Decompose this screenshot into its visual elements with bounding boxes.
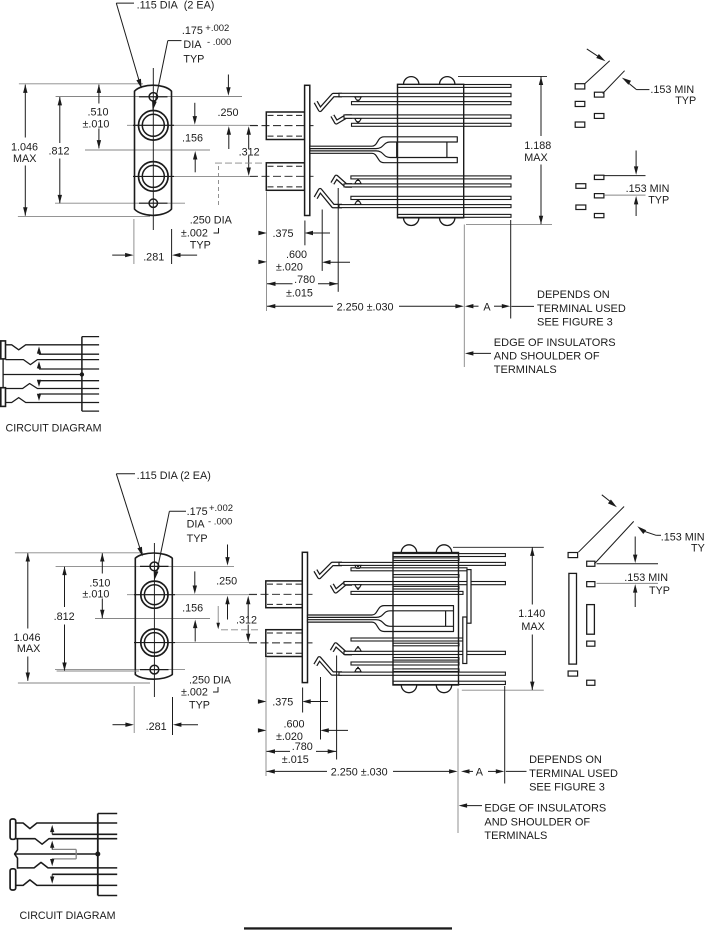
wire row3b (top CD) — [39, 380, 99, 382]
contact strip A (top fig) — [398, 85, 512, 88]
extension line insulator edge (top fig) — [463, 225, 465, 368]
dimension .156 (bottom fig) — [194, 571, 196, 587]
contact strip C (top fig) — [352, 102, 512, 105]
svg-text:.812: .812 — [54, 611, 75, 623]
mounting plate front view (bottom fig) — [135, 553, 172, 679]
svg-text:.175: .175 — [182, 25, 203, 37]
actuator bar upper (bottom fig) — [467, 570, 471, 624]
dimension .156 (top fig) — [194, 103, 196, 118]
actuator bar lower (bottom fig) — [463, 617, 467, 664]
mounting plate front view (top fig) — [135, 85, 172, 215]
terminal b6 (bottom fig) — [587, 641, 595, 646]
middle sleeve wire (top CD) — [3, 374, 82, 376]
dimension .510 +/-.010 (bottom fig) — [101, 553, 103, 573]
svg-text:TERMINALS: TERMINALS — [484, 830, 547, 842]
svg-text:.510: .510 — [88, 107, 109, 119]
contact strip B2 (bottom fig) — [339, 562, 505, 565]
svg-text:TYP: TYP — [649, 585, 670, 597]
terminal 6 (top fig) — [594, 175, 604, 179]
svg-text:1.140: 1.140 — [518, 608, 545, 620]
rivet bump top-left (top fig) — [404, 77, 419, 85]
spring leaf G2 with hook (bottom fig) — [332, 645, 352, 654]
contact strip F2 (bottom fig) — [351, 638, 463, 641]
terminal 2 (top fig) — [594, 92, 604, 97]
reference line lower (top fig lower cluster) — [604, 194, 645, 196]
dimension .312 (bottom fig) — [247, 603, 249, 619]
dimension .600 +/-.020 (top fig) — [258, 260, 267, 264]
dimension .812 (bottom fig) — [64, 567, 66, 607]
dimension .250 hole spacing (top fig) — [227, 75, 229, 90]
contact arrow 2 (top CD) — [38, 366, 40, 369]
contact arrow 1 (top CD) — [38, 351, 40, 354]
svg-text:±.020: ±.020 — [276, 262, 303, 274]
contact arrow 3 (bottom CD) — [51, 859, 53, 862]
contact strip A2 (bottom fig) — [393, 554, 505, 557]
contact strip J2 (bottom fig) — [393, 681, 505, 684]
frame upper arm (top fig) — [310, 137, 458, 149]
contact strip I2 (bottom fig) — [339, 672, 505, 675]
extension line plate face (top fig) — [304, 221, 306, 246]
dimension .510 +/-.010 (top fig) — [98, 85, 100, 104]
centerline large hole 2 (top fig) — [174, 175, 257, 177]
contact arrow 2 (bottom CD) — [51, 847, 53, 850]
diagonal reference line 1 (bottom fig) — [578, 507, 624, 553]
dimension .812 (top fig) — [59, 97, 61, 143]
dimension .600 +/-.020 (bottom fig) — [258, 728, 267, 732]
small mounting hole top (bottom fig) — [150, 562, 159, 571]
bus stub top (bottom CD) — [98, 813, 117, 815]
rivet bump top-right (top fig) — [440, 77, 455, 85]
svg-text:MAX: MAX — [524, 152, 547, 164]
reference line mid upper (bottom fig) — [597, 563, 659, 565]
wire row4b (bottom CD) — [52, 873, 117, 875]
dimension .780 +/-.015 (top fig) — [267, 283, 293, 285]
spring leaf I with hook (top fig) — [316, 190, 342, 206]
dimension 1.046 MAX (bottom fig) — [27, 553, 29, 628]
leader .115 DIA (top fig) — [116, 2, 134, 4]
extension line hook I2 (bottom fig) — [320, 677, 322, 740]
contact strip C2 (bottom fig) — [351, 568, 467, 571]
centerline small hole 2 (top fig) — [55, 202, 185, 204]
bushing 1 side view (bottom fig) — [266, 581, 303, 608]
dimension .375 (bottom fig) — [258, 699, 267, 703]
dimension 1.046 MAX (top fig) — [24, 85, 26, 138]
svg-text:.250: .250 — [218, 107, 239, 119]
svg-text:TERMINALS: TERMINALS — [494, 364, 557, 376]
svg-text:±.002: ±.002 — [181, 228, 208, 240]
extension line plate top (top fig) — [19, 83, 143, 85]
wire row3 (bottom CD) — [18, 862, 118, 868]
rivet bump bottom-right (bottom fig) — [436, 685, 451, 693]
svg-text:.156: .156 — [182, 133, 203, 145]
terminal 1 (top fig) — [575, 84, 585, 89]
centerline mid reference (bottom fig) — [95, 618, 210, 620]
contact arrow 1 (bottom CD) — [51, 831, 53, 834]
wire row2 (bottom CD) — [16, 839, 118, 845]
jack sleeve bar 2 (top CD) — [1, 388, 6, 407]
contact strip A2b (bottom fig) — [393, 558, 459, 561]
dimension 1.140 MAX (bottom fig) — [453, 546, 544, 548]
insulator link (bottom CD) — [52, 848, 76, 850]
jack hole 1 inner (bottom fig) — [144, 585, 164, 605]
arrow to diagonal 1 (top fig) — [587, 49, 600, 57]
diagonal reference line 1 (top fig) — [585, 61, 610, 84]
contact strip J (top fig) — [398, 214, 512, 217]
contact strip G2 (bottom fig) — [344, 651, 505, 654]
contact strip G (top fig) — [344, 184, 511, 187]
svg-text:.156: .156 — [182, 603, 203, 615]
leader edge of insulators (bottom fig) — [459, 803, 468, 807]
frame center block lines (bottom fig) — [445, 611, 447, 627]
svg-text:DEPENDS ON: DEPENDS ON — [529, 754, 602, 766]
contact arrow 4 (top CD) — [38, 394, 40, 397]
svg-text:MAX: MAX — [17, 643, 40, 655]
bus line (bottom CD) — [97, 814, 99, 896]
spring leaf G with hook (top fig) — [332, 177, 352, 186]
wire row1b (bottom CD) — [52, 833, 117, 835]
svg-text:2.250 ±.030: 2.250 ±.030 — [337, 301, 394, 313]
svg-text:±.015: ±.015 — [286, 287, 313, 299]
insulator block outline (top fig) — [398, 84, 464, 218]
svg-text:TYP: TYP — [675, 95, 696, 107]
middle sleeve wire (bottom CD) — [15, 853, 97, 855]
bushing 2 centerline (bottom fig) — [249, 642, 313, 644]
svg-text:.250: .250 — [216, 576, 237, 588]
svg-text:.153 MIN: .153 MIN — [624, 572, 668, 584]
junction dot (bottom CD) — [95, 852, 100, 857]
leader .153 MIN upper (top fig) — [622, 78, 631, 85]
terminal 5 (top fig) — [575, 122, 585, 127]
svg-text:.281: .281 — [143, 252, 164, 264]
bus stub top (top CD) — [82, 336, 99, 338]
svg-text:1.046: 1.046 — [11, 141, 38, 153]
contact arrow 3 (top CD) — [38, 381, 40, 384]
centerline large hole 1 (top fig) — [127, 124, 257, 126]
svg-text:.375: .375 — [273, 228, 294, 240]
extension line plate top (bottom fig) — [15, 552, 143, 554]
extension line insulator edge (bottom fig) — [457, 689, 459, 834]
svg-text:MAX: MAX — [13, 153, 36, 165]
svg-text:MAX: MAX — [521, 621, 544, 633]
contact point D2 (bottom fig) — [355, 585, 361, 588]
svg-text:±.010: ±.010 — [83, 119, 110, 131]
sleeve connector wire (top CD) — [2, 359, 4, 388]
jack sleeve bar 2 (bottom CD) — [10, 869, 16, 890]
small mounting hole bottom (bottom fig) — [150, 665, 159, 674]
jack hole 1 outer (top fig) — [139, 111, 169, 141]
wire row2 (top CD) — [6, 360, 100, 365]
svg-text:A: A — [476, 766, 484, 778]
svg-text:DIA: DIA — [183, 39, 202, 51]
terminal b1 (bottom fig) — [568, 553, 578, 558]
dimension .250 hole spacing (bottom fig) — [227, 545, 229, 560]
svg-text:1.188: 1.188 — [524, 140, 551, 152]
wire row4 (bottom CD) — [16, 880, 118, 886]
extension line plate bottom (top fig) — [18, 215, 150, 217]
contact strip I2b (bottom fig) — [393, 669, 459, 672]
svg-text:A: A — [483, 301, 491, 313]
extension line plate face (bottom fig) — [302, 688, 304, 713]
wire row1b (top CD) — [39, 353, 99, 355]
jack hole 2 inner (top fig) — [142, 165, 164, 187]
terminal tall bar 2 (bottom fig) — [587, 605, 595, 635]
terminal 4 (top fig) — [594, 114, 604, 119]
diagonal reference line 2 (bottom fig) — [594, 521, 633, 564]
leader line bushing dia (top fig) — [218, 166, 220, 207]
svg-text:.600: .600 — [284, 718, 305, 730]
terminal b2 (bottom fig) — [587, 561, 595, 566]
extension line terminal shoulder (bottom fig) — [504, 686, 506, 784]
extension line hook G (top fig) — [337, 188, 339, 292]
contact strip C2b (bottom fig) — [393, 575, 459, 578]
contact point H-I (top fig) — [355, 201, 361, 204]
leader line bushing dia (bottom fig) — [217, 606, 219, 625]
svg-text:±.010: ±.010 — [82, 588, 109, 600]
contact strip H2 (bottom fig) — [351, 662, 459, 665]
dimension A (top fig) — [465, 304, 474, 308]
svg-text:CIRCUIT DIAGRAM: CIRCUIT DIAGRAM — [20, 910, 116, 922]
jack hole 2 outer (top fig) — [139, 162, 169, 192]
junction dot (top CD) — [80, 372, 84, 376]
svg-text:- .000: - .000 — [207, 37, 231, 48]
rivet bump bottom-right (top fig) — [440, 218, 455, 226]
contact strip B (top fig) — [339, 93, 511, 96]
dimension .780 +/-.015 (bottom fig) — [267, 750, 291, 752]
frame lower arm (top fig) — [310, 151, 458, 163]
svg-text:+.002: +.002 — [209, 503, 233, 514]
svg-text:.375: .375 — [272, 696, 293, 708]
svg-text:TYP: TYP — [691, 543, 705, 555]
terminal 8 (top fig) — [594, 194, 604, 198]
jack hole 2 outer (bottom fig) — [141, 629, 168, 656]
sleeve connector wire (bottom CD) — [15, 839, 18, 869]
svg-text:TYP: TYP — [187, 533, 208, 545]
contact strip I (top fig) — [339, 205, 511, 208]
svg-text:+.002: +.002 — [205, 23, 229, 34]
svg-text:EDGE OF INSULATORS: EDGE OF INSULATORS — [494, 337, 616, 349]
small mounting hole bottom (top fig) — [149, 199, 157, 207]
svg-text:.600: .600 — [286, 249, 307, 261]
svg-text:.812: .812 — [49, 145, 70, 157]
contact point B2-C2 (bottom fig) — [355, 565, 361, 568]
svg-text:DEPENDS ON: DEPENDS ON — [537, 289, 610, 301]
vertical centerline of plate (bottom fig) — [153, 543, 155, 697]
dimension arrows .153 mid (bottom fig) — [634, 537, 636, 557]
svg-text:- .000: - .000 — [208, 516, 232, 527]
terminal b4 (bottom fig) — [587, 582, 595, 587]
contact arrow 4 (bottom CD) — [51, 874, 53, 877]
wire row3 (top CD) — [6, 384, 100, 389]
svg-text:TERMINAL USED: TERMINAL USED — [529, 768, 618, 780]
centerline small hole 1 (bottom fig) — [56, 565, 234, 567]
contact strip H (top fig) — [351, 196, 511, 199]
dimension 1.188 MAX (top fig) — [458, 75, 547, 77]
spring leaf D with hook (top fig) — [332, 116, 352, 123]
svg-text:SEE FIGURE 3: SEE FIGURE 3 — [529, 782, 605, 794]
svg-text:.312: .312 — [239, 147, 260, 159]
arrow to diagonal 1 (bottom fig) — [602, 495, 612, 503]
svg-text:.780: .780 — [294, 274, 315, 286]
bus line (top CD) — [81, 337, 83, 412]
svg-text:SEE FIGURE 3: SEE FIGURE 3 — [537, 317, 613, 329]
contact point B-C (top fig) — [355, 97, 361, 100]
jack hole 1 outer (bottom fig) — [141, 581, 168, 608]
wire row4 (top CD) — [6, 398, 100, 403]
jack sleeve bar 1 (top CD) — [1, 341, 6, 359]
svg-text:.250 DIA: .250 DIA — [190, 214, 233, 226]
wire row2b (top CD) — [39, 368, 99, 370]
svg-text:.312: .312 — [236, 615, 257, 627]
centerline mid reference (top fig) — [85, 149, 210, 151]
centerline small hole 2 (bottom fig) — [55, 669, 185, 671]
dimension .375 (top fig) — [258, 231, 267, 235]
svg-text:AND SHOULDER OF: AND SHOULDER OF — [494, 350, 600, 362]
svg-text:AND SHOULDER OF: AND SHOULDER OF — [484, 816, 590, 828]
dimension .281 (top fig) — [133, 219, 135, 264]
rivet bump bottom-left (bottom fig) — [401, 685, 416, 693]
bushing 2 side view (top fig) — [266, 163, 304, 191]
dimension arrows .153 lower (top fig) — [635, 151, 637, 169]
mounting plate side view (top fig) — [305, 85, 310, 215]
svg-text:.281: .281 — [146, 721, 167, 733]
contact strip F (top fig) — [351, 176, 511, 179]
mounting plate side view (bottom fig) — [302, 552, 307, 682]
svg-text:EDGE OF INSULATORS: EDGE OF INSULATORS — [484, 802, 606, 814]
svg-text:TYP: TYP — [190, 239, 211, 251]
terminal b7 (bottom fig) — [568, 671, 578, 676]
bushing 2 side view (bottom fig) — [266, 630, 303, 657]
rivet bump top-left (bottom fig) — [401, 545, 416, 553]
svg-text:.250 DIA: .250 DIA — [189, 674, 232, 686]
bushing 2 centerline (top fig) — [250, 175, 314, 177]
centerline large hole 1 (bottom fig) — [127, 594, 257, 596]
spring leaf B with hook (top fig) — [316, 95, 342, 110]
reference line upper (top fig lower cluster) — [604, 175, 645, 177]
extension line hook G2 (bottom fig) — [336, 656, 338, 760]
contact point I2 (bottom fig) — [355, 669, 361, 672]
extension line bushing face (bottom fig) — [265, 658, 267, 776]
footer separator line — [244, 927, 452, 929]
svg-text:.115 DIA (2 EA): .115 DIA (2 EA) — [137, 470, 211, 482]
terminal 10 (top fig) — [594, 214, 604, 218]
leader .115 DIA (bottom fig) — [116, 473, 135, 475]
wire row1 tip (top CD) — [6, 345, 100, 350]
svg-text:±.015: ±.015 — [282, 754, 309, 766]
contact point F-G (top fig) — [355, 181, 361, 184]
contact point G2 (bottom fig) — [355, 648, 361, 651]
dimension 2.250 +/-.030 (bottom fig) — [267, 770, 328, 772]
extension line bushing face (top fig) — [266, 192, 268, 312]
bus stub bottom (bottom CD) — [98, 895, 117, 897]
small mounting hole top (top fig) — [149, 93, 157, 101]
svg-text:.115 DIA (2 EA): .115 DIA (2 EA) — [137, 0, 215, 12]
extension line hook I (top fig) — [321, 210, 323, 271]
contact strip E (top fig) — [352, 123, 512, 126]
leader edge of insulators (top fig) — [465, 351, 474, 355]
frame upper arm (bottom fig) — [308, 606, 454, 618]
svg-text:TYP: TYP — [183, 53, 204, 65]
terminal 3 (top fig) — [575, 101, 585, 106]
contact strip D2 (bottom fig) — [344, 582, 505, 585]
leader .175 DIA (top fig) — [168, 40, 182, 42]
bushing 1 centerline (top fig) — [250, 125, 314, 127]
svg-text:.175: .175 — [187, 506, 208, 518]
rivet bump bottom-left (top fig) — [404, 218, 419, 226]
rivet bump top-right (bottom fig) — [436, 545, 451, 553]
frame lower arm (bottom fig) — [308, 620, 454, 632]
centerline small hole 1 (top fig) — [56, 96, 242, 98]
diagonal reference line 2 (top fig) — [603, 71, 625, 94]
svg-text:±.002: ±.002 — [181, 687, 208, 699]
svg-text:2.250 ±.030: 2.250 ±.030 — [331, 767, 388, 779]
terminal b8 (bottom fig) — [587, 680, 595, 685]
svg-text:TYP: TYP — [648, 194, 669, 206]
contact strip D2b (bottom fig) — [393, 586, 459, 589]
bushing 1 centerline (bottom fig) — [249, 593, 313, 595]
spring leaf B2 with hook (bottom fig) — [315, 564, 342, 577]
svg-text:CIRCUIT DIAGRAM: CIRCUIT DIAGRAM — [6, 422, 102, 434]
svg-text:TERMINAL USED: TERMINAL USED — [537, 303, 626, 315]
bus stub bottom (top CD) — [82, 410, 99, 412]
insulator block outline (bottom fig) — [393, 553, 459, 686]
spring leaf I2 with hook (bottom fig) — [315, 658, 342, 673]
vertical centerline of plate (top fig) — [152, 68, 154, 230]
leader .175 DIA (bottom fig) — [169, 510, 186, 512]
jack sleeve bar 1 (bottom CD) — [10, 819, 16, 839]
dimension 2.250 +/-.030 (top fig) — [267, 305, 333, 307]
jack hole 1 inner (top fig) — [142, 114, 164, 136]
centerline large hole 2 (bottom fig) — [174, 642, 257, 644]
jack hole 2 inner (bottom fig) — [144, 633, 164, 653]
terminal 7 (top fig) — [576, 184, 586, 189]
svg-text:.780: .780 — [292, 741, 313, 753]
spring leaf D2 with hook (bottom fig) — [332, 583, 352, 591]
contact point D-E (top fig) — [355, 119, 361, 122]
terminal tall bar 1 (bottom fig) — [569, 573, 577, 664]
contact strip G2b (bottom fig) — [393, 658, 459, 661]
svg-text:.153 MIN: .153 MIN — [626, 183, 670, 195]
bushing 1 side view (top fig) — [266, 112, 304, 140]
svg-text:DIA: DIA — [187, 518, 206, 530]
extension line plate bottom (bottom fig) — [18, 682, 150, 684]
dimension .281 (bottom fig) — [133, 686, 135, 733]
wire row1 tip (bottom CD) — [16, 823, 118, 829]
contact strip E2 (bottom fig) — [351, 591, 463, 594]
dimension A (bottom fig) — [461, 769, 470, 773]
dimension .312 (top fig) — [248, 134, 250, 150]
extension line terminal shoulder (top fig) — [510, 220, 512, 319]
contact strip F2b (bottom fig) — [393, 643, 459, 646]
terminal 9 (top fig) — [576, 205, 586, 210]
frame center block lines (top fig) — [396, 142, 398, 158]
svg-text:TYP: TYP — [189, 699, 210, 711]
reference line mid lower (bottom fig) — [597, 582, 659, 584]
contact strip D (top fig) — [344, 115, 511, 118]
wire row4b (top CD) — [39, 393, 99, 395]
leader .153 MIN upper (bottom fig) — [637, 526, 646, 534]
